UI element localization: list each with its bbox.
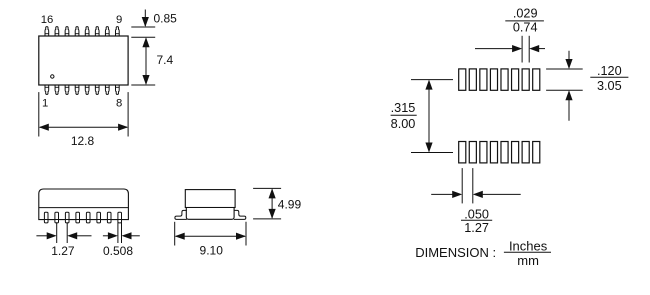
svg-text:.120: .120 (597, 64, 622, 78)
svg-text:9.10: 9.10 (200, 244, 224, 258)
svg-text:8: 8 (116, 97, 122, 109)
svg-text:0.85: 0.85 (154, 12, 178, 26)
svg-text:1.27: 1.27 (464, 221, 489, 235)
svg-text:DIMENSION :: DIMENSION : (415, 245, 496, 260)
svg-text:8.00: 8.00 (391, 117, 416, 131)
svg-text:.315: .315 (391, 101, 416, 115)
svg-text:7.4: 7.4 (157, 53, 174, 67)
svg-text:.029: .029 (513, 6, 538, 20)
svg-text:16: 16 (41, 14, 54, 26)
svg-text:.050: .050 (464, 207, 489, 221)
svg-text:1: 1 (42, 97, 48, 109)
svg-text:0.508: 0.508 (103, 244, 133, 258)
svg-text:9: 9 (116, 14, 122, 26)
svg-text:4.99: 4.99 (278, 197, 302, 211)
svg-text:3.05: 3.05 (597, 79, 622, 93)
svg-text:12.8: 12.8 (71, 134, 95, 148)
svg-text:0.74: 0.74 (513, 20, 538, 34)
svg-text:Inches: Inches (509, 238, 548, 253)
svg-text:mm: mm (517, 253, 539, 268)
svg-text:1.27: 1.27 (51, 244, 75, 258)
